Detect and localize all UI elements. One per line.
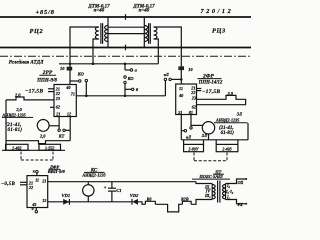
- svg-text:2,0: 2,0: [39, 134, 46, 139]
- svg-text:+85/8: +85/8: [36, 9, 55, 16]
- wire W1 top bottom row: [48, 181, 196, 183]
- svg-text:КО: КО: [127, 76, 135, 81]
- wire chip U2 pin81 to relay: [190, 115, 204, 130]
- pin stubs -0,5В: [1, 182, 27, 187]
- wire chip U1 pin to relay: [49, 117, 59, 130]
- chip U1 pin labels: [55, 85, 75, 116]
- svg-text:23: 23: [191, 96, 196, 101]
- junction dot E: [124, 95, 127, 98]
- wire right vertical from label underline: [247, 123, 249, 140]
- transformer ПТ left winding: [212, 184, 215, 200]
- svg-text:АНВД2-1235: АНВД2-1235: [81, 172, 105, 177]
- junction dot A: [69, 63, 72, 66]
- wire boundary dash-dot line: [0, 55, 251, 57]
- wire rail L1: [0, 16, 251, 18]
- junction dot D: [180, 78, 183, 81]
- svg-text:ВВП-9/8: ВВП-9/8: [47, 169, 66, 174]
- svg-text:40: 40: [178, 93, 184, 98]
- ПТ winding labels right: [225, 183, 234, 199]
- wire T2 right top lead to chip U2: [154, 27, 182, 84]
- transformer ПТ labels: [192, 169, 230, 179]
- svg-text:3Л: 3Л: [201, 133, 208, 138]
- pin stubs -17,5В left: [25, 89, 54, 95]
- junction insulating joint on L1: [125, 14, 127, 20]
- terminal б bottom: [32, 206, 38, 213]
- svg-text:КО: КО: [77, 72, 85, 77]
- wire between transformers upper: [108, 26, 144, 28]
- svg-text:51: 51: [178, 110, 182, 115]
- svg-text:2,0: 2,0: [14, 92, 21, 97]
- wire W2 lower bottom row: [48, 200, 213, 212]
- svg-text:АНВД2-1235: АНВД2-1235: [215, 118, 239, 123]
- wire left vertical: [5, 100, 7, 150]
- svg-text:1-552: 1-552: [45, 146, 54, 151]
- diode VD2: [130, 193, 139, 205]
- pin stub 62: [50, 106, 54, 108]
- svg-text:VD1: VD1: [62, 193, 71, 198]
- chip U3 pin labels: [28, 178, 46, 207]
- wire dashed connector left: [21, 152, 53, 161]
- transformer ПТ core: [218, 181, 220, 203]
- pin stubs -17,5В right: [197, 89, 221, 95]
- chip U1 ППН-9/8 box: [54, 85, 76, 117]
- svg-text:40: 40: [65, 85, 71, 90]
- svg-text:n=40: n=40: [94, 9, 105, 14]
- svg-text:РЦ2: РЦ2: [30, 28, 44, 35]
- svg-text:АНВД2-1235: АНВД2-1235: [1, 112, 25, 117]
- svg-text:ППН-14/12: ППН-14/12: [198, 80, 223, 85]
- svg-text:n=40: n=40: [139, 9, 150, 14]
- transformer T1 right winding lead: [107, 17, 109, 48]
- svg-text:VD2: VD2: [130, 193, 139, 198]
- wire rail L2: [0, 47, 251, 49]
- transformer ПТ right winding: [223, 184, 226, 200]
- transformer T2 label ДТМ-0,17 n=40: [132, 4, 155, 13]
- terminal ОХ: [226, 178, 248, 185]
- wire dashed connector right: [194, 153, 227, 161]
- wire between transformers lower: [108, 33, 144, 35]
- svg-text:КТ: КТ: [58, 134, 65, 139]
- relay КС labels: [81, 169, 105, 178]
- transformer T2 right winding: [154, 27, 157, 39]
- svg-text:13: 13: [42, 198, 46, 203]
- svg-text:С1: С1: [116, 188, 121, 193]
- transformer T2 left winding: [144, 26, 147, 42]
- svg-text:22: 22: [190, 90, 195, 95]
- transformer T2 left winding lead: [143, 17, 145, 48]
- jumper 1-552: [39, 144, 61, 150]
- svg-text:61-81): 61-81): [221, 131, 235, 136]
- svg-text:62: 62: [56, 105, 60, 110]
- chip U2 ППН-14/12 box: [176, 84, 197, 115]
- svg-text:2-403: 2-403: [221, 146, 231, 151]
- capacitor C1: [104, 182, 122, 202]
- wire W_mid chip U1 pin71 to contact: [76, 95, 165, 97]
- resistor 2,0 dip on W_rel: [6, 134, 70, 144]
- contact КО center: [124, 76, 135, 84]
- chip U1 label 2РР ППН-9/8: [36, 70, 57, 83]
- svg-text:ПОБС-5А83: ПОБС-5А83: [198, 174, 223, 179]
- svg-text:3,0: 3,0: [227, 91, 234, 96]
- wire W1 to ПТ: [196, 182, 212, 184]
- svg-text:12: 12: [67, 111, 71, 116]
- terminal к top: [33, 168, 38, 175]
- svg-text:21: 21: [41, 179, 46, 184]
- svg-text:(21-41,: (21-41,: [219, 126, 234, 131]
- wire T2 right bottom lead: [154, 39, 159, 64]
- svg-text:61-81): 61-81): [8, 128, 23, 133]
- relay 2Л АНВД2-1235 left labels: [1, 107, 33, 133]
- svg-text:71: 71: [71, 91, 75, 96]
- svg-text:2-80У: 2-80У: [187, 146, 199, 151]
- svg-text:IV: IV: [205, 188, 211, 193]
- resistor 3,0 loop pin23 to pin62: [197, 91, 246, 105]
- terminal РХ: [226, 200, 248, 208]
- chip U3 label ДФР ВВП-9/8: [47, 164, 66, 174]
- junction dot B: [92, 63, 95, 66]
- resistor R2В: [181, 196, 191, 204]
- jumper 1-402: [2, 144, 65, 150]
- jumper 2-403: [216, 140, 238, 152]
- svg-text:ППН-9/8: ППН-9/8: [36, 78, 57, 83]
- relay 3Л АНВД2-1235 right labels: [214, 111, 248, 136]
- svg-text:−17,5В: −17,5В: [202, 89, 220, 95]
- relay КС coil circle: [83, 182, 94, 202]
- wire T1 left bottom lead: [93, 39, 99, 64]
- transformer T1 right winding: [105, 26, 108, 42]
- contact КО upper left: [70, 72, 88, 96]
- svg-text:Ш₂: Ш₂: [204, 194, 211, 198]
- contact вЛ lower right: [181, 115, 192, 140]
- svg-text:I₁: I₁: [226, 194, 230, 199]
- transformer T2 core: [149, 23, 151, 44]
- contact вЛ right: [164, 72, 182, 96]
- transformer T1 left winding: [95, 27, 98, 39]
- terminal a stub: [125, 64, 138, 73]
- svg-text:РЦ3: РЦ3: [212, 28, 226, 35]
- svg-text:11: 11: [179, 86, 183, 91]
- wire W_top horizontal: [59, 63, 158, 65]
- relay coil circle left: [37, 120, 49, 132]
- contact КТ left: [58, 129, 70, 139]
- svg-text:720/12: 720/12: [201, 8, 234, 15]
- resistor 10 right on chip U2 lead: [178, 66, 193, 72]
- jumper 2-80У: [184, 140, 204, 152]
- svg-text:−0,5В: −0,5В: [1, 182, 15, 187]
- relay coil circle right: [202, 122, 214, 134]
- wire relay bottom stub: [208, 134, 210, 140]
- svg-text:3Л: 3Л: [236, 111, 243, 116]
- svg-text:21: 21: [55, 111, 60, 116]
- diode VD1: [62, 193, 71, 205]
- svg-text:81: 81: [189, 110, 193, 115]
- transformer T1 core: [101, 23, 103, 44]
- wire T1 left top lead to chip U1: [70, 27, 99, 85]
- svg-text:23: 23: [55, 96, 60, 101]
- ПТ winding labels left: [204, 185, 211, 198]
- junction dot C: [85, 95, 88, 98]
- resistor R6: [145, 196, 155, 204]
- terminal б stub: [125, 84, 139, 96]
- svg-text:+: +: [104, 186, 107, 191]
- chip U2 pin labels: [178, 86, 196, 116]
- wire chip U1 pin12 down: [69, 117, 71, 141]
- svg-text:62: 62: [192, 105, 196, 110]
- junction dot on W_top center: [124, 63, 127, 66]
- svg-text:1-402: 1-402: [12, 146, 21, 151]
- chip U3 ВВП-9/8 box: [27, 176, 48, 208]
- svg-text:−17,5В: −17,5В: [25, 89, 43, 95]
- svg-text:Релейная АТДЛ: Релейная АТДЛ: [9, 60, 44, 66]
- svg-text:11: 11: [35, 178, 39, 183]
- junction insulating joint on L2: [125, 45, 127, 51]
- transformer T1 label ДТМ-0,17 n=40: [87, 4, 110, 13]
- resistor 2,0 wire to pin 23: [6, 92, 54, 100]
- wire W_relbot: [181, 139, 248, 141]
- chip U2 label 2ФР ППН-14/12: [197, 74, 223, 86]
- resistor 10 left on chip U1 lead: [60, 66, 72, 71]
- svg-text:22: 22: [28, 185, 33, 190]
- svg-text:R2В: R2В: [181, 196, 189, 201]
